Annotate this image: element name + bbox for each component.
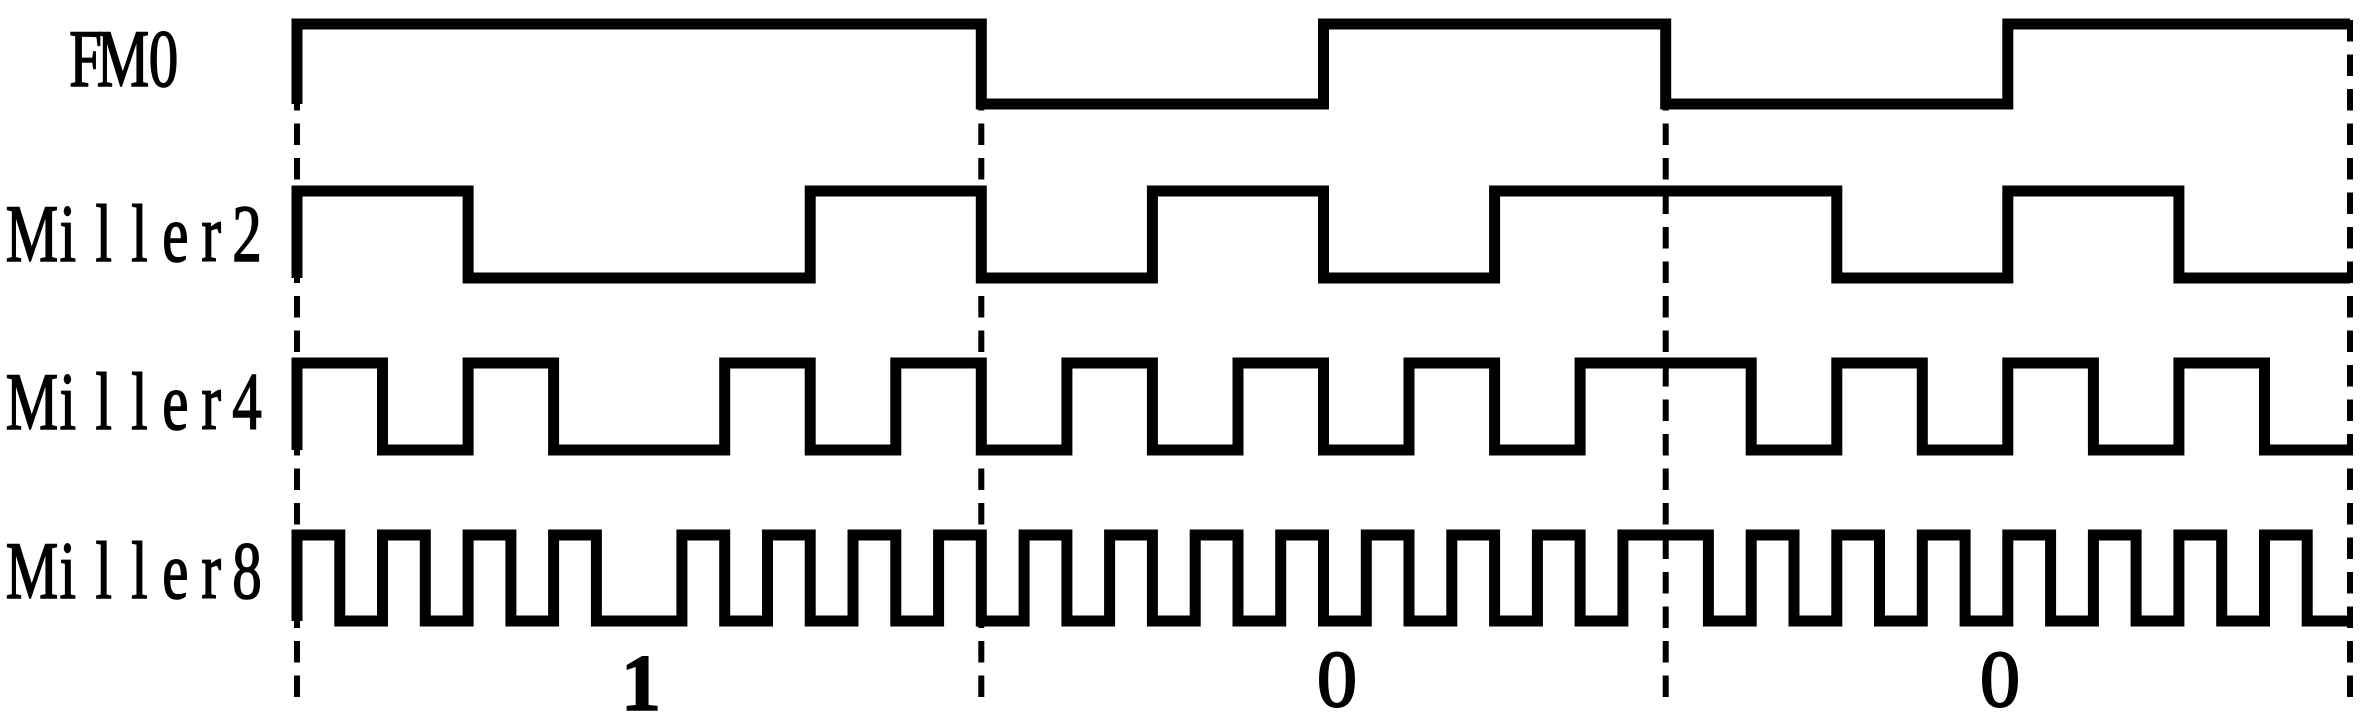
svg-text:i: i bbox=[60, 189, 76, 280]
svg-text:l: l bbox=[95, 526, 111, 617]
svg-text:0: 0 bbox=[149, 14, 179, 105]
svg-text:e: e bbox=[162, 357, 188, 448]
svg-text:0: 0 bbox=[1317, 636, 1357, 724]
svg-text:M: M bbox=[97, 14, 149, 105]
svg-text:8: 8 bbox=[232, 526, 262, 617]
svg-text:r: r bbox=[201, 526, 221, 617]
svg-text:l: l bbox=[95, 189, 111, 280]
svg-text:M: M bbox=[6, 357, 58, 448]
svg-text:2: 2 bbox=[232, 189, 262, 280]
svg-text:M: M bbox=[6, 189, 58, 280]
svg-text:e: e bbox=[162, 189, 188, 280]
svg-text:l: l bbox=[131, 189, 147, 280]
svg-text:M: M bbox=[6, 526, 58, 617]
svg-text:l: l bbox=[131, 526, 147, 617]
svg-text:4: 4 bbox=[232, 357, 262, 448]
svg-text:i: i bbox=[60, 357, 76, 448]
svg-text:i: i bbox=[60, 526, 76, 617]
svg-text:r: r bbox=[201, 189, 221, 280]
svg-text:1: 1 bbox=[621, 640, 661, 726]
svg-text:r: r bbox=[201, 357, 221, 448]
svg-text:l: l bbox=[131, 357, 147, 448]
svg-text:e: e bbox=[162, 526, 188, 617]
svg-text:0: 0 bbox=[1980, 636, 2020, 724]
svg-text:l: l bbox=[95, 357, 111, 448]
